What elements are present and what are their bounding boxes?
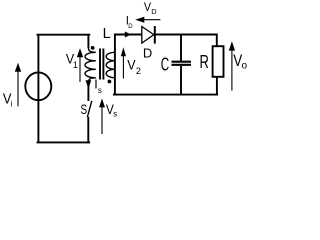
svg-text:V: V xyxy=(144,0,151,14)
resistor R body xyxy=(213,46,224,77)
capacitor C bottom lead xyxy=(180,66,182,95)
svg-text:D: D xyxy=(151,7,157,16)
resistor R bottom lead xyxy=(216,77,218,95)
arrowhead Vi xyxy=(15,63,21,72)
diode cathode bar xyxy=(154,26,156,44)
wire input left rail xyxy=(37,35,39,143)
arrowhead v2 xyxy=(121,47,126,56)
svg-text:R: R xyxy=(200,51,209,72)
svg-text:o: o xyxy=(242,61,248,72)
arrowhead v1 xyxy=(77,48,83,57)
svg-text:D: D xyxy=(143,46,152,61)
wire output top (cathode side) xyxy=(155,34,218,36)
svg-text:V: V xyxy=(127,56,136,72)
capacitor C top lead xyxy=(180,34,182,61)
wire secondary lead xyxy=(114,34,116,96)
polarity dot secondary xyxy=(108,80,112,84)
wire output top (anode side) xyxy=(114,34,142,36)
arrow Vi xyxy=(17,71,19,107)
arrowhead Vo xyxy=(229,41,235,50)
wire output bottom rail xyxy=(114,94,217,96)
wire switch bottom lead xyxy=(87,117,89,144)
transformer core xyxy=(100,49,103,80)
diode D xyxy=(142,27,154,43)
svg-text:D: D xyxy=(128,24,133,30)
switch S blade xyxy=(87,101,91,117)
arrow v1 xyxy=(79,57,81,83)
svg-text:L: L xyxy=(103,26,111,42)
wire primary bottom lead xyxy=(87,81,89,101)
wire input bottom rail xyxy=(38,141,90,143)
svg-text:1: 1 xyxy=(73,60,78,70)
arrowhead Is xyxy=(86,80,92,88)
arrow v2 xyxy=(122,56,124,79)
arrow VD xyxy=(144,19,160,21)
arrowhead VD xyxy=(135,17,144,23)
resistor R top lead xyxy=(216,34,218,47)
arrow Vs xyxy=(101,107,103,134)
polarity dot primary xyxy=(91,46,95,50)
svg-text:s: s xyxy=(113,109,117,118)
transformer secondary winding xyxy=(106,52,115,78)
wire input top rail xyxy=(38,34,90,36)
svg-text:S: S xyxy=(81,102,88,117)
svg-text:s: s xyxy=(98,86,102,95)
svg-text:2: 2 xyxy=(136,66,141,76)
svg-text:C: C xyxy=(161,54,169,75)
voltage source Vi xyxy=(25,72,51,100)
capacitor C plates xyxy=(172,62,192,65)
arrowhead ID xyxy=(125,32,132,38)
svg-text:i: i xyxy=(11,100,13,109)
arrow Vo xyxy=(231,50,233,91)
wire primary top lead xyxy=(87,34,89,48)
transformer primary winding xyxy=(85,48,96,82)
arrowhead Vs xyxy=(99,99,105,108)
